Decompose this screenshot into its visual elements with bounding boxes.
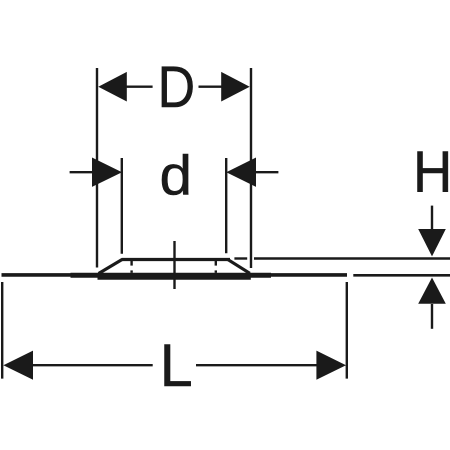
svg-text:D: D	[158, 54, 195, 119]
svg-text:H: H	[413, 139, 450, 204]
svg-text:d: d	[159, 145, 192, 207]
svg-text:L: L	[160, 331, 193, 399]
